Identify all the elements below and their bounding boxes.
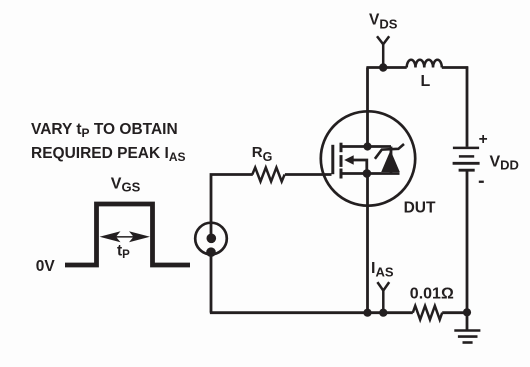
ground bar 1	[454, 329, 480, 332]
resistor 0.01ohm	[413, 306, 442, 320]
wire: pulse generator to RG	[211, 175, 253, 239]
label IAS	[371, 260, 394, 280]
VDS probe dot	[379, 63, 387, 71]
svg-text:VDD: VDD	[490, 154, 519, 173]
label VGS	[111, 175, 141, 194]
battery VDD plate 2	[459, 155, 474, 158]
svg-text:0.01Ω: 0.01Ω	[410, 285, 454, 302]
top rail wire left	[366, 66, 406, 69]
label RG	[252, 144, 273, 164]
top rail wire right	[442, 66, 468, 69]
wire: right rail top (to battery)	[466, 66, 469, 146]
MOSFET body arrow	[344, 155, 354, 165]
label tP	[117, 243, 130, 261]
wire: pulse generator down to bottom rail	[210, 253, 213, 313]
label 0.01ohm	[410, 285, 454, 302]
label DUT	[404, 199, 436, 216]
svg-text:VDS: VDS	[369, 11, 398, 31]
wire: drain up to top rail	[366, 68, 369, 147]
annotation text line 1: VARY tP TO OBTAIN	[31, 121, 178, 140]
wire: source down to bottom rail	[366, 174, 369, 313]
bottom rail wire left	[210, 311, 413, 314]
label VDD	[490, 154, 519, 173]
svg-text:DUT: DUT	[404, 199, 436, 216]
annotation text line 2: REQUIRED PEAK IAS	[31, 145, 185, 164]
MOSFET channel segment middle	[340, 155, 343, 167]
junction dot source/bottom rail	[363, 309, 371, 317]
VDS probe	[377, 36, 389, 67]
battery VDD plate 3	[453, 162, 480, 165]
MOSFET channel segment bottom	[340, 169, 343, 179]
MOSFET drain stub	[341, 145, 368, 148]
MOSFET body connection wire	[354, 160, 367, 173]
drain junction dot	[363, 142, 371, 150]
battery VDD plate 4	[459, 169, 475, 172]
IAS probe	[377, 282, 389, 313]
svg-text:+: +	[479, 131, 488, 148]
svg-text:REQUIRED PEAK IAS: REQUIRED PEAK IAS	[31, 145, 185, 164]
MOSFET source stub	[341, 172, 368, 175]
battery minus label	[479, 181, 484, 183]
svg-text:L: L	[421, 73, 431, 90]
source junction dot	[363, 169, 372, 178]
IAS probe dot	[379, 309, 387, 317]
body diode bottom wire	[368, 172, 400, 175]
MOSFET DUT circle	[321, 111, 415, 205]
pulse generator V1	[195, 223, 227, 255]
MOSFET gate plate	[331, 145, 334, 174]
ground bar 3	[463, 341, 473, 344]
svg-text:tP: tP	[117, 243, 130, 261]
body diode vertical wire	[390, 147, 393, 174]
inductor L	[407, 60, 442, 68]
svg-text:VGS: VGS	[111, 175, 141, 194]
battery plus label	[479, 131, 488, 148]
ground bar 2	[458, 335, 478, 338]
VGS pulse waveform	[65, 204, 190, 265]
battery VDD plate 1	[453, 147, 479, 150]
svg-text:IAS: IAS	[371, 260, 394, 280]
body diode triangle	[381, 150, 400, 172]
wire: RG to gate	[285, 173, 332, 176]
body diode top wire	[368, 145, 392, 148]
label L	[421, 73, 431, 90]
ground stub	[466, 313, 469, 331]
label 0V	[36, 258, 56, 275]
pulse generator bottom terminal dot	[206, 247, 216, 257]
svg-text:VARY tP TO OBTAIN: VARY tP TO OBTAIN	[31, 121, 178, 140]
resistor RG	[252, 168, 284, 182]
body diode zener cathode bar	[375, 144, 404, 159]
tP width arrow	[100, 231, 151, 242]
svg-text:0V: 0V	[36, 258, 56, 275]
pulse generator top terminal dot	[207, 234, 217, 244]
svg-text:RG: RG	[252, 144, 273, 164]
bottom rail wire right	[442, 311, 467, 314]
wire: battery to bottom rail	[466, 171, 469, 312]
junction dot ground	[463, 308, 471, 316]
MOSFET channel segment top	[340, 143, 343, 153]
label VDS	[369, 11, 398, 31]
